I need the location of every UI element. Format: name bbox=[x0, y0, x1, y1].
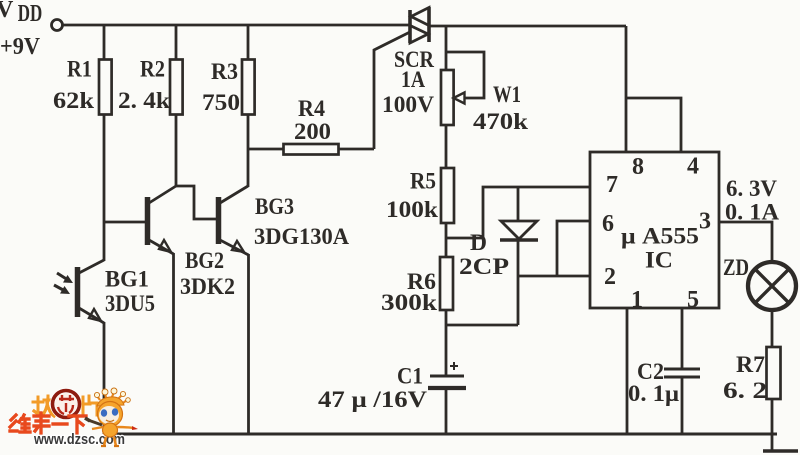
wire top rail left bbox=[63, 24, 410, 27]
watermark logo bbox=[10, 388, 138, 448]
transistor BG3 bbox=[176, 186, 349, 434]
svg-text:C1: C1 bbox=[397, 364, 423, 389]
wire node A to pin7 bbox=[446, 187, 590, 238]
wire SCR gate bbox=[374, 32, 410, 149]
svg-text:3DK2: 3DK2 bbox=[180, 274, 235, 299]
svg-text:3DU5: 3DU5 bbox=[105, 291, 155, 316]
wire pin3 bbox=[719, 222, 772, 262]
transistor BG1 (photo) bbox=[54, 260, 155, 434]
svg-text:R7: R7 bbox=[736, 352, 765, 377]
orange char pian bbox=[83, 396, 97, 415]
orange char zhao (found as strokes) bbox=[33, 396, 54, 416]
svg-text:4: 4 bbox=[687, 154, 699, 180]
resistor R7 bbox=[723, 347, 781, 450]
capacitor C2 bbox=[628, 359, 700, 434]
svg-text:R5: R5 bbox=[410, 169, 436, 194]
lamp ZD bbox=[723, 255, 796, 310]
svg-text:+9V: +9V bbox=[0, 34, 41, 60]
wire pin4 bbox=[626, 98, 681, 152]
svg-text:DD: DD bbox=[18, 1, 43, 27]
svg-text:BG2: BG2 bbox=[185, 248, 224, 273]
capacitor C1 bbox=[318, 362, 466, 434]
ground bbox=[763, 449, 798, 453]
resistor R5 bbox=[386, 168, 454, 257]
diode D 2CP bbox=[459, 187, 538, 325]
svg-text:1A: 1A bbox=[401, 67, 425, 92]
svg-text:47 μ /16V: 47 μ /16V bbox=[318, 387, 427, 412]
svg-text:1: 1 bbox=[631, 287, 643, 313]
svg-text:2. 4k: 2. 4k bbox=[118, 88, 170, 113]
svg-text:R4: R4 bbox=[298, 96, 325, 121]
svg-text:BG3: BG3 bbox=[255, 194, 294, 219]
red circle logo bbox=[53, 391, 80, 418]
wire pin1 bbox=[626, 308, 629, 434]
svg-text:R3: R3 bbox=[211, 59, 238, 84]
svg-text:100k: 100k bbox=[386, 197, 438, 222]
svg-text:2CP: 2CP bbox=[459, 254, 509, 279]
terminal VDD bbox=[52, 20, 63, 31]
svg-text:750: 750 bbox=[202, 90, 240, 115]
svg-text:BG1: BG1 bbox=[105, 267, 149, 292]
svg-text:6. 2: 6. 2 bbox=[723, 378, 767, 403]
resistor R2 bbox=[118, 25, 183, 187]
wire lamp to R7 bbox=[771, 310, 774, 347]
wire pin8 bbox=[625, 26, 628, 152]
svg-text:7: 7 bbox=[606, 172, 618, 198]
wire top rail right bbox=[429, 25, 626, 28]
svg-text:V: V bbox=[0, 0, 14, 23]
label VDD bbox=[0, 0, 42, 60]
svg-text:100V: 100V bbox=[382, 92, 434, 117]
svg-text:D: D bbox=[470, 230, 487, 255]
wire W1 to R5 bbox=[445, 125, 448, 168]
svg-text:6. 3V: 6. 3V bbox=[726, 176, 777, 201]
IC U1 uA555 timer bbox=[590, 152, 719, 313]
resistor R1 bbox=[53, 25, 112, 261]
svg-text:62k: 62k bbox=[53, 88, 94, 113]
svg-text:5: 5 bbox=[687, 287, 699, 313]
mascot bbox=[85, 388, 138, 446]
svg-text:μ A555: μ A555 bbox=[621, 224, 699, 249]
svg-text:3: 3 bbox=[699, 209, 711, 235]
red text weiku yixia (vector) bbox=[10, 413, 86, 433]
wire pin6 bbox=[557, 221, 590, 276]
resistor R6 bbox=[381, 257, 453, 376]
svg-text:8: 8 bbox=[632, 154, 644, 180]
wire pin5 bbox=[681, 308, 684, 369]
svg-text:0. 1μ: 0. 1μ bbox=[628, 381, 679, 406]
svg-text:2: 2 bbox=[604, 264, 616, 290]
svg-text:0. 1A: 0. 1A bbox=[725, 200, 779, 225]
wire bottom rail bbox=[104, 433, 777, 436]
resistor R3 bbox=[202, 25, 255, 187]
svg-text:ZD: ZD bbox=[723, 255, 749, 280]
wire node B to diode cathode bbox=[446, 324, 518, 327]
svg-text:470k: 470k bbox=[473, 109, 528, 134]
transistor BG2 bbox=[104, 186, 235, 434]
potentiometer W1 bbox=[441, 26, 528, 134]
svg-text:3DG130A: 3DG130A bbox=[254, 224, 349, 249]
svg-text:300k: 300k bbox=[381, 290, 437, 315]
svg-text:IC: IC bbox=[645, 248, 673, 273]
svg-text:200: 200 bbox=[294, 119, 331, 144]
svg-text:R2: R2 bbox=[140, 57, 165, 82]
wire pin2 bbox=[518, 275, 590, 278]
svg-text:R1: R1 bbox=[67, 57, 92, 82]
svg-text:W1: W1 bbox=[493, 82, 521, 107]
SCR bbox=[382, 7, 434, 117]
svg-text:6: 6 bbox=[602, 211, 614, 237]
resistor R4 bbox=[248, 96, 374, 155]
